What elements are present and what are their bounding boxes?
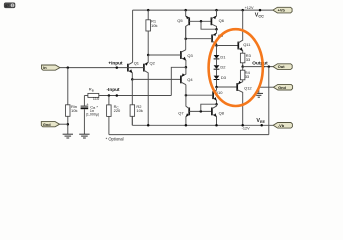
svg-text:Q7: Q7	[178, 111, 184, 116]
highlight ellipse (orange)	[209, 29, 263, 106]
svg-text:Q6: Q6	[219, 18, 225, 23]
node junction: Q6 collector / mirror tie / Q9 emitter	[215, 28, 218, 31]
node +Input anchor	[116, 66, 119, 69]
node junction: Q7 emitter on rail	[185, 124, 188, 127]
capacitor CB (polarized, optional)	[81, 96, 100, 135]
diode D3	[214, 75, 227, 87]
transistor Q1 (input, NPN)	[128, 60, 140, 79]
corner badge	[4, 3, 15, 8]
tag Gnd (bottom left)	[41, 122, 68, 127]
wire: Q7/Q8 base tie	[189, 110, 212, 112]
svg-text:-Vb: -Vb	[278, 123, 285, 128]
svg-text:In: In	[43, 65, 47, 70]
svg-text:+Input: +Input	[108, 61, 123, 66]
svg-text:VEE: VEE	[256, 118, 265, 124]
transistor Q3 (VAS)	[181, 50, 194, 68]
wire: base tie down to Q6 collector	[201, 21, 217, 29]
svg-text:10k: 10k	[151, 23, 157, 28]
svg-text:Q4: Q4	[187, 77, 193, 82]
svg-text:Q1: Q1	[134, 60, 140, 65]
resistor R4 33	[240, 67, 250, 80]
svg-text:33: 33	[245, 74, 250, 79]
svg-text:D1: D1	[220, 54, 226, 59]
svg-text:67: 67	[5, 4, 9, 8]
svg-text:110: 110	[93, 96, 100, 101]
node junction: base tie tap	[200, 20, 203, 23]
svg-text:Gnd: Gnd	[43, 122, 51, 127]
wire: Q11 base wire	[217, 45, 239, 47]
transistor Q8 (mirror right)	[212, 104, 225, 125]
node junction: Q8 emitter on rail	[215, 124, 218, 127]
svg-text:Q5: Q5	[177, 18, 183, 23]
wire: Q9 base wire	[186, 38, 212, 40]
node VCC anchor dot	[259, 9, 262, 12]
svg-text:+Vb: +Vb	[278, 8, 286, 13]
transistor Q9 (cascode)	[212, 29, 224, 45]
resistor Rin	[66, 68, 78, 135]
wire: +12V top rail	[133, 9, 273, 11]
svg-text:* Optional: * Optional	[106, 136, 124, 141]
node junction: Gnd tag / Rin leg	[67, 123, 70, 126]
wire: emitter node down through -Input wire to R2	[131, 79, 133, 104]
diode D1	[214, 54, 227, 65]
transistor Q4	[181, 67, 194, 84]
svg-text:8: 8	[12, 4, 14, 8]
svg-text:33: 33	[246, 57, 251, 62]
wire: R2 bottom corner to rail	[131, 116, 133, 125]
transistor Q5 (PNP current mirror, left)	[177, 10, 189, 39]
node Output label anchor	[262, 65, 265, 68]
node junction: Q9 collector / D1 / Q11 base	[215, 44, 218, 47]
svg-text:Q2: Q2	[150, 61, 156, 66]
tag In (left)	[42, 65, 60, 70]
transistor Q2 (input, upper arrow)	[144, 55, 156, 125]
node junction: output / R3-R4	[241, 65, 244, 68]
svg-text:(1,000µ): (1,000µ)	[86, 113, 99, 117]
node junction: Q5 collector / Q9 base / Q3 collector	[184, 37, 187, 40]
node junction: D3 bottom / Q10 emitter / Q12 base	[215, 86, 218, 89]
wire: -input riser	[171, 67, 186, 95]
node junction: RC top	[108, 94, 111, 97]
svg-text:Gnd: Gnd	[278, 85, 286, 90]
svg-text:Out: Out	[278, 64, 285, 69]
wire: diode chain feed	[216, 46, 218, 56]
node junction: R1 bottom / Q2 emitter / Q3 base wire	[147, 54, 150, 57]
svg-text:-12V: -12V	[242, 126, 250, 130]
resistor R2 10k	[130, 104, 143, 125]
node junction: Rin top	[67, 66, 70, 69]
transistor Q7 (mirror left, faces left)	[178, 85, 189, 126]
diode D2	[214, 65, 227, 76]
node junction: Q4 emitter / Q10 base	[185, 94, 188, 97]
svg-text:VCC: VCC	[255, 13, 264, 19]
wire: feedback line from RC bottom to output drop	[109, 134, 269, 136]
node junction: Q2 lower lead on rail	[147, 124, 150, 127]
svg-text:Q8: Q8	[219, 110, 225, 115]
transistor Q11 (NPN output)	[238, 10, 251, 53]
node junction: Q10 emitter / Q8 collector tie	[215, 103, 218, 106]
svg-text:Q3: Q3	[187, 53, 193, 58]
wire: bottom VEE rail	[132, 124, 273, 126]
wire: output feedback drop	[268, 67, 270, 135]
wire: tie up and right to Q8 collector	[201, 104, 217, 111]
wire: Q5 collector down to Q3 collector	[185, 26, 187, 49]
tag Out (right)	[273, 64, 292, 70]
node junction: Q1/Q2 emitter node	[131, 78, 134, 81]
ground (below Rin)	[63, 134, 73, 138]
resistor R1 10k	[146, 10, 158, 55]
tag +Vb (top right)	[273, 7, 292, 13]
resistor R3 33	[240, 53, 251, 67]
node VEE anchor dot	[260, 124, 263, 127]
node junction: Q11 collector branch on rail	[241, 9, 244, 12]
node -Input anchor	[116, 94, 119, 97]
transistor Q12 (PNP output)	[237, 80, 252, 126]
wire: rail corner down to Q1 collector	[132, 10, 134, 62]
ground (output reference)	[255, 87, 263, 97]
svg-text:D2: D2	[220, 65, 226, 70]
tag -Vb (bottom right)	[273, 123, 292, 129]
node junction: Q12 collector on rail	[241, 124, 244, 127]
resistor RB 110 (horizontal)	[88, 87, 100, 101]
wire: Gnd tag wire (right)	[259, 86, 274, 88]
tag Gnd (middle right)	[273, 84, 292, 90]
svg-text:Output: Output	[252, 61, 268, 66]
wire: emitter node to Q4 base	[132, 78, 181, 80]
node junction: Q5 emitter on rail	[184, 9, 187, 12]
wire: output wire	[243, 66, 273, 68]
wire: Q10 base from Q4 emitter	[186, 94, 213, 96]
svg-text:-Input: -Input	[107, 87, 120, 92]
svg-text:D3: D3	[221, 75, 227, 80]
wire: Q5/Q6 base tie	[189, 20, 211, 22]
resistor RC 220	[107, 96, 121, 135]
svg-text:Q12: Q12	[244, 85, 252, 90]
svg-text:10k: 10k	[136, 108, 142, 113]
svg-text:10k: 10k	[71, 108, 77, 113]
node junction: Q6 emitter on rail	[215, 9, 218, 12]
wire: diode chain bottom to Q12 base	[217, 86, 238, 88]
node junction: Q3 emitter / Q4 collector / -input riser	[185, 66, 188, 69]
wire: -Input horizontal wire	[84, 95, 88, 97]
wire: Q3 base wire	[148, 54, 181, 56]
svg-text:Q11: Q11	[243, 42, 251, 47]
ground (below CB)	[79, 134, 89, 138]
transistor Q6 (PNP current mirror, right)	[211, 10, 224, 29]
node junction: R1 top on rail	[147, 9, 150, 12]
wire: input wire from In tag through Q1 base to Q2 base	[60, 67, 144, 69]
svg-text:220: 220	[114, 108, 121, 113]
wire: -Input wire continues to riser	[99, 95, 172, 97]
transistor Q10 (driver)	[213, 87, 223, 104]
node junction: base tie tap	[200, 110, 203, 113]
svg-text:RB: RB	[89, 87, 94, 93]
node junction: output to feedback drop	[268, 65, 271, 68]
svg-text:+12V: +12V	[245, 6, 254, 10]
